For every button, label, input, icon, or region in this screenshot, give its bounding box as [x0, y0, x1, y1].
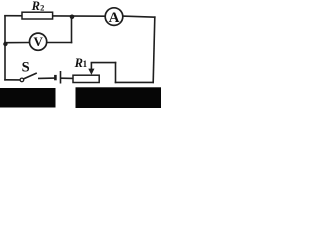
wire top right segment — [123, 16, 155, 17]
censor bar left — [0, 88, 56, 108]
wire bottom-right horizontal — [116, 81, 154, 83]
svg-text:R: R — [74, 56, 83, 70]
node junction dot left (R2/V left node) — [3, 42, 7, 46]
resistor R2 — [22, 12, 53, 19]
wire top left segment — [5, 15, 105, 18]
censor bar right — [76, 87, 162, 108]
voltmeter V — [29, 33, 46, 50]
svg-text:1: 1 — [83, 59, 88, 69]
wire rheostat step vertical — [115, 63, 117, 83]
node junction dot top (R2/V right node) — [70, 14, 75, 19]
wire voltmeter branch left — [5, 42, 30, 44]
wire switch to battery — [39, 77, 55, 79]
wire battery to R1 — [61, 77, 73, 79]
wire voltmeter riser — [71, 16, 73, 43]
battery cell — [55, 71, 60, 84]
wire bottom-left — [5, 79, 20, 81]
wire left edge — [4, 16, 6, 80]
wire wiper horizontal — [91, 62, 115, 64]
svg-text:R: R — [31, 0, 40, 13]
svg-text:2: 2 — [40, 2, 44, 12]
wire voltmeter branch right — [47, 42, 72, 44]
svg-text:A: A — [109, 10, 120, 26]
wire right edge — [153, 17, 155, 82]
svg-text:S: S — [22, 59, 30, 75]
ammeter A — [105, 8, 123, 26]
svg-text:V: V — [34, 34, 44, 49]
switch S — [20, 73, 37, 82]
rheostat R1 — [73, 63, 99, 83]
